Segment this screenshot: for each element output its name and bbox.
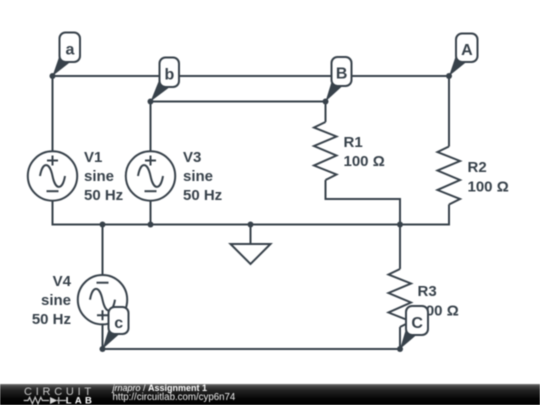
svg-text:R2: R2 xyxy=(468,159,487,176)
svg-text:V4: V4 xyxy=(53,273,72,290)
svg-text:b: b xyxy=(165,67,175,84)
svg-text:100 Ω: 100 Ω xyxy=(344,153,385,170)
svg-text:C: C xyxy=(411,315,423,332)
svg-text:R3: R3 xyxy=(418,283,437,300)
svg-text:sine: sine xyxy=(183,168,213,185)
svg-text:50 Hz: 50 Hz xyxy=(183,187,222,204)
svg-text:a: a xyxy=(65,42,74,59)
svg-text:sine: sine xyxy=(41,292,71,309)
svg-text:100 Ω: 100 Ω xyxy=(468,179,509,196)
svg-text:V3: V3 xyxy=(183,149,201,166)
svg-text:50 Hz: 50 Hz xyxy=(84,187,123,204)
svg-text:sine: sine xyxy=(84,168,114,185)
svg-text:V1: V1 xyxy=(84,149,102,166)
svg-text:R1: R1 xyxy=(344,134,363,151)
svg-text:http://circuitlab.com/cyp6n74: http://circuitlab.com/cyp6n74 xyxy=(113,392,236,403)
svg-text:50 Hz: 50 Hz xyxy=(32,311,71,328)
svg-text:B: B xyxy=(336,66,348,83)
svg-text:c: c xyxy=(114,315,123,332)
svg-text:LAB: LAB xyxy=(66,396,95,405)
svg-text:A: A xyxy=(461,42,473,59)
